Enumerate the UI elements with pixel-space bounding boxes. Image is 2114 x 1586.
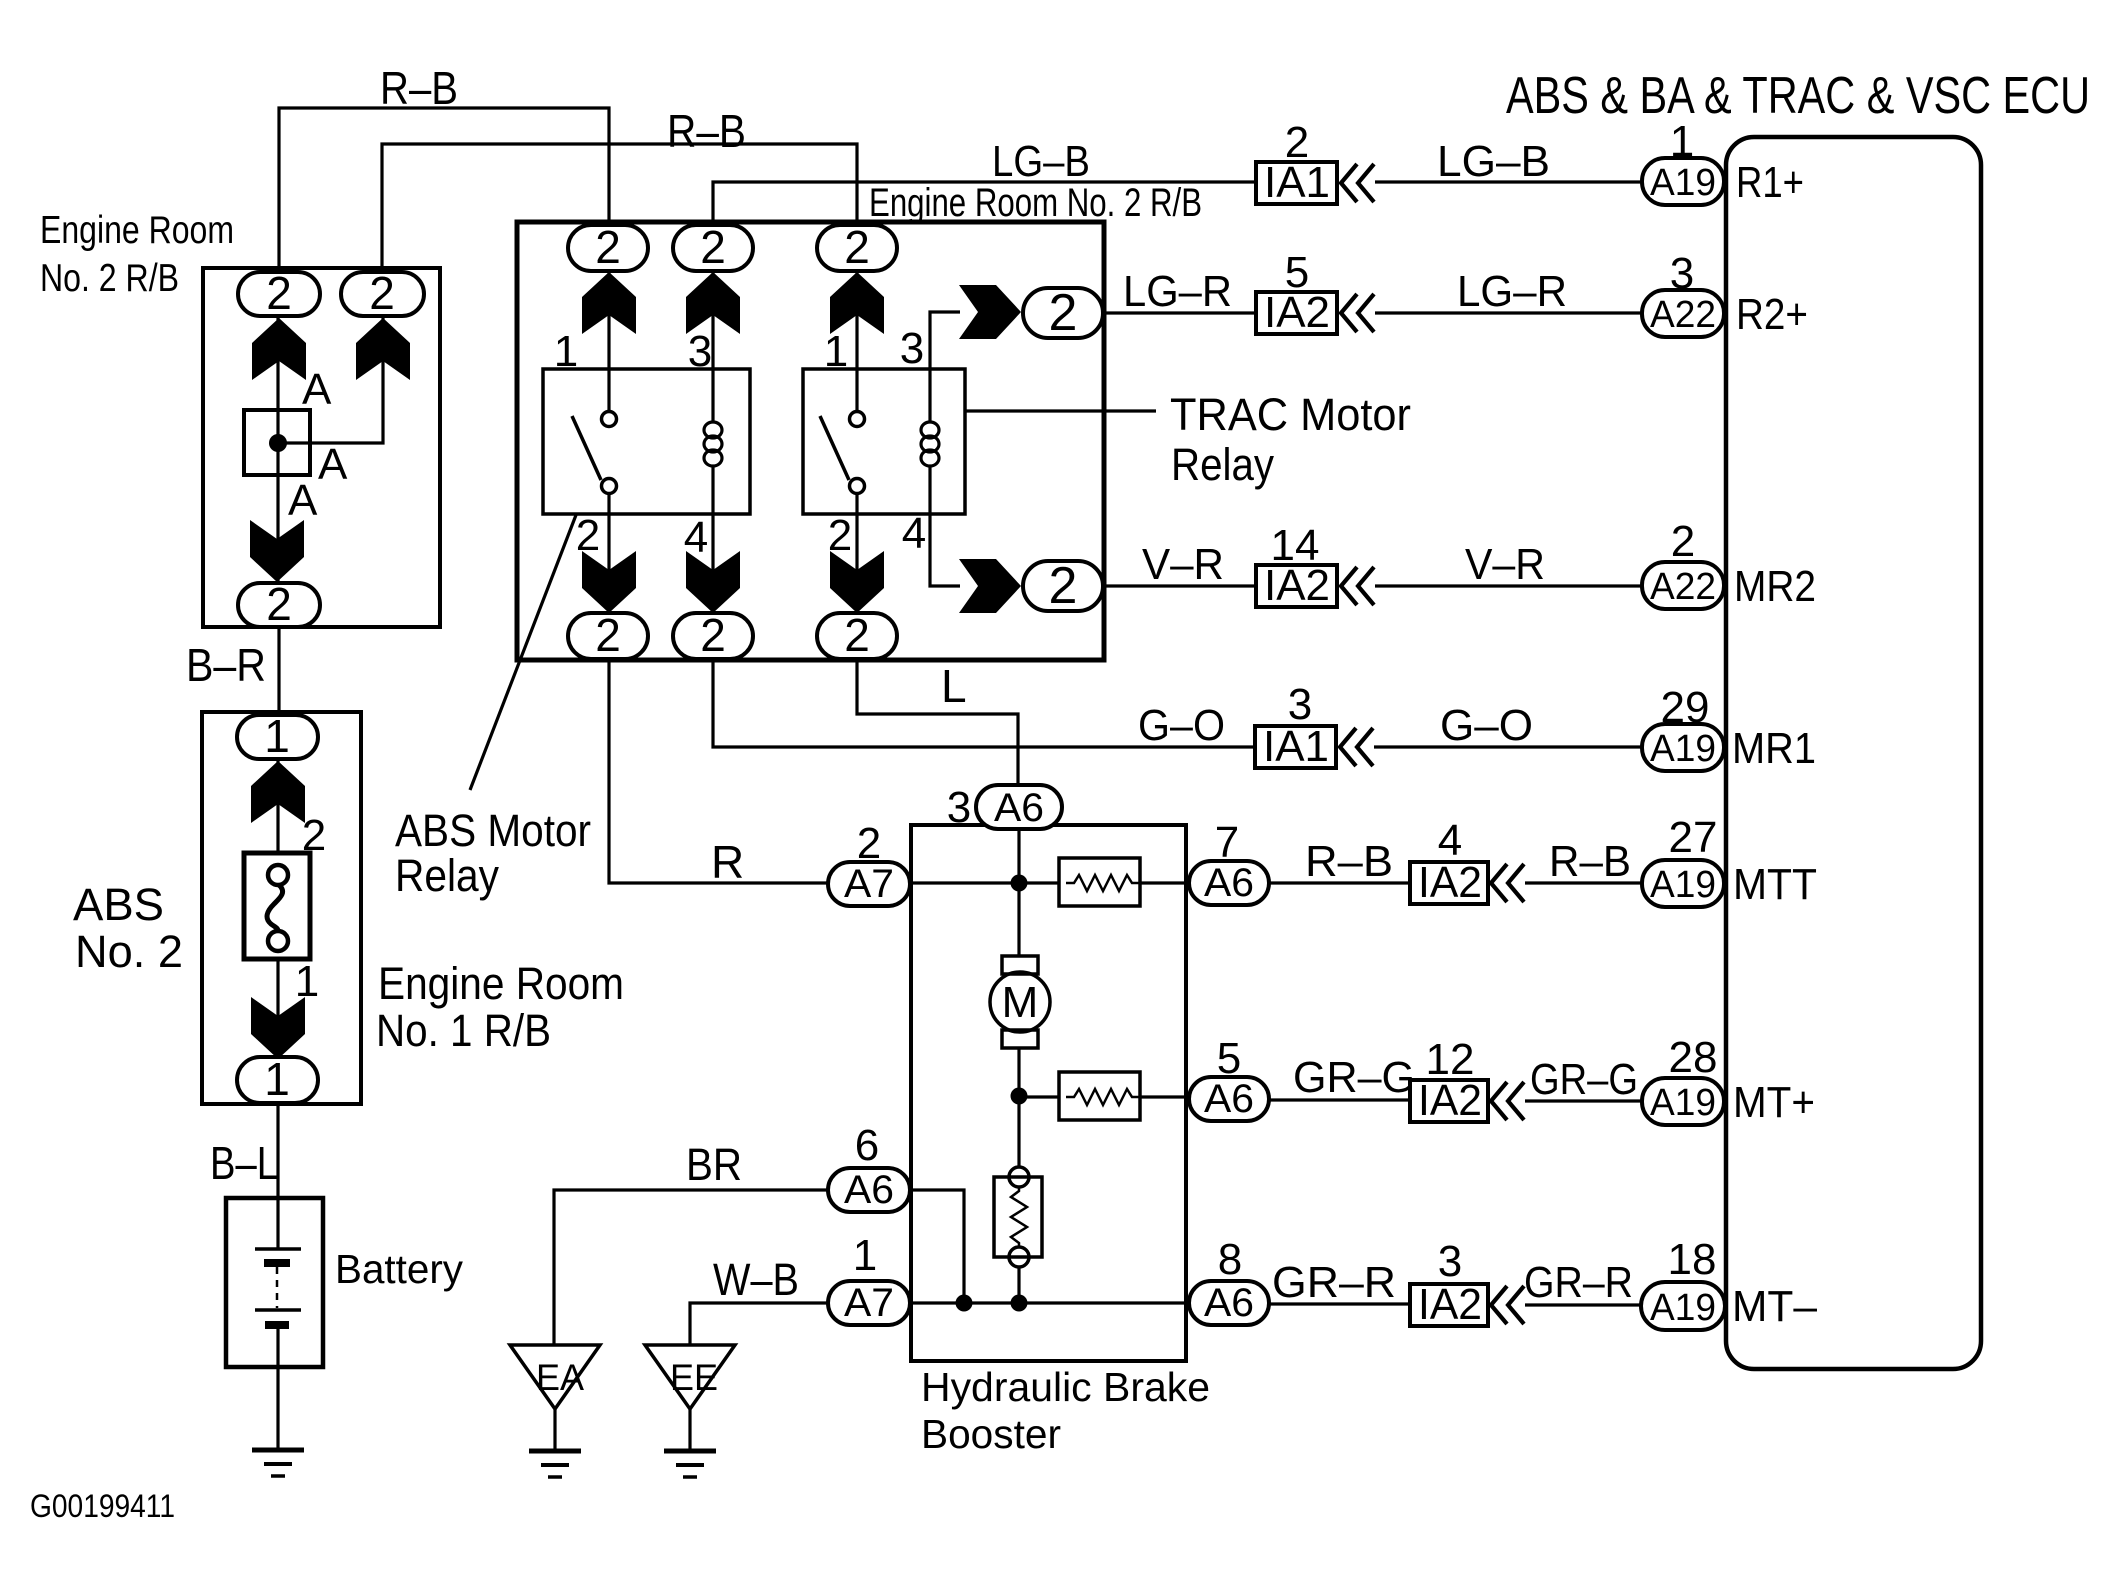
wire R-B battery feed to col1 top oval	[279, 108, 609, 268]
oval 2 col1 bottom	[568, 613, 648, 659]
svg-text:R–B: R–B	[667, 105, 746, 157]
switch contact relay1	[607, 369, 610, 412]
fuse arrow down col3	[830, 551, 884, 613]
svg-text:A6: A6	[844, 1168, 894, 1212]
wire relay2 coil pin3 up to LG-R arrow	[930, 312, 960, 369]
wire G-O from relay col2 bottom to IA1 (row MR1)	[713, 660, 1255, 747]
connector IA2 pin 5 (row R2+)	[1256, 292, 1337, 334]
svg-text:5: 5	[1285, 248, 1309, 297]
svg-text:2: 2	[1285, 118, 1309, 167]
wire R-B A6 pin7 to IA2 (row MTT)	[1269, 881, 1410, 884]
connector IA2 pin 3 (row MT-)	[1410, 1284, 1488, 1326]
svg-text:GR–R: GR–R	[1524, 1258, 1633, 1307]
svg-text:Booster: Booster	[921, 1411, 1061, 1457]
connector oval A22 pin 3 (R2+)	[1642, 290, 1724, 337]
svg-text:1: 1	[1670, 117, 1694, 166]
wire MTT row inside booster	[911, 881, 1189, 884]
svg-text:2: 2	[1049, 284, 1078, 342]
svg-text:2: 2	[266, 267, 292, 319]
junction block box Engine Room No. 2 R/B (left)	[203, 268, 440, 627]
svg-text:MT–: MT–	[1732, 1282, 1818, 1331]
wire oval1 to fuse ABS No.2	[276, 759, 279, 853]
svg-text:28: 28	[1669, 1033, 1718, 1082]
resistor MTT row	[1059, 858, 1140, 906]
arrow right V-R	[959, 559, 1021, 613]
svg-text:2: 2	[844, 221, 870, 273]
connector oval A19 pin 27 (MTT)	[1642, 860, 1724, 907]
ground battery	[252, 1450, 304, 1476]
svg-text:2: 2	[700, 609, 726, 661]
oval A6 pin 7	[1189, 861, 1269, 905]
fuse arrow up ABS No.2	[251, 761, 305, 823]
svg-text:14: 14	[1271, 521, 1320, 570]
wire R-B second branch to col3 top oval	[382, 144, 857, 268]
pointer line ABS Motor Relay	[470, 515, 576, 790]
junction dot node A	[269, 434, 287, 452]
svg-text:W–B: W–B	[713, 1254, 799, 1305]
connector IA1 pin 3 (row MR1)	[1255, 726, 1336, 768]
wire V-R oval to IA2 (row MR2)	[1103, 584, 1256, 587]
svg-text:2: 2	[844, 609, 870, 661]
svg-text:2: 2	[1049, 557, 1078, 615]
wire LG-B IA1 to ECU pin A19	[1375, 180, 1642, 183]
connector oval A19 pin 28 (MT+)	[1642, 1078, 1724, 1125]
svg-text:IA1: IA1	[1263, 722, 1329, 771]
svg-text:MR1: MR1	[1732, 724, 1816, 773]
oval 1 ABS No.2 bottom	[237, 1057, 318, 1103]
svg-text:Relay: Relay	[1171, 439, 1274, 490]
svg-text:ABS & BA & TRAC & VSC ECU: ABS & BA & TRAC & VSC ECU	[1506, 67, 2090, 125]
svg-text:A7: A7	[844, 862, 894, 906]
svg-text:MTT: MTT	[1733, 860, 1817, 909]
connector oval A19 pin 29 (MR1)	[1642, 724, 1724, 771]
svg-text:2: 2	[857, 819, 881, 868]
wire relay1 pin2 to col1 bottom oval	[607, 514, 610, 613]
connector IA1 pin 2 (row R1+)	[1256, 162, 1337, 204]
oval 2 col2 top	[673, 225, 753, 271]
oval A7 pin 2 (booster left top)	[828, 862, 910, 906]
svg-text:1: 1	[264, 1053, 290, 1105]
svg-text:8: 8	[1218, 1235, 1242, 1284]
wire motor to MT+ junction	[1017, 1048, 1020, 1168]
oval 2 left box bottom	[238, 583, 320, 627]
wire relay1 pin4 to col2 bottom oval	[711, 514, 714, 613]
wire GR-R IA2 to ECU pin A19 (MT-)	[1525, 1303, 1641, 1306]
svg-text:7: 7	[1215, 818, 1239, 867]
svg-text:V–R: V–R	[1142, 540, 1224, 589]
junction dot MTT	[1011, 875, 1028, 892]
junction dot MT+	[1011, 1088, 1028, 1105]
svg-text:R–B: R–B	[1549, 837, 1631, 886]
wire battery to ground	[276, 1329, 279, 1450]
coil relay1	[711, 369, 714, 423]
resistor vertical booster	[994, 1177, 1042, 1257]
relay block box Engine Room No. 2 R/B	[517, 222, 1104, 660]
wire W-B A7 pin1 to EE ground	[690, 1303, 828, 1345]
svg-text:Hydraulic Brake: Hydraulic Brake	[921, 1364, 1210, 1410]
oval A6 pin 5	[1189, 1077, 1269, 1121]
wire BR A6 pin6 to EA ground	[554, 1190, 828, 1345]
svg-text:A19: A19	[1650, 728, 1716, 770]
svg-text:A22: A22	[1650, 294, 1716, 336]
pointer line TRAC Motor Relay	[965, 409, 1156, 412]
svg-text:1: 1	[824, 327, 848, 376]
svg-text:MR2: MR2	[1734, 562, 1816, 611]
svg-text:EA: EA	[536, 1357, 584, 1398]
oval 2 left box top col1	[238, 272, 320, 316]
oval 2 col3 bottom	[817, 613, 897, 659]
svg-text:A6: A6	[1204, 861, 1254, 905]
oval 1 ABS No.2 top	[237, 715, 318, 759]
svg-text:2: 2	[369, 267, 395, 319]
battery box	[226, 1198, 323, 1367]
svg-text:G00199411: G00199411	[30, 1488, 175, 1524]
svg-text:V–R: V–R	[1465, 540, 1545, 589]
svg-text:No. 2 R/B: No. 2 R/B	[40, 257, 179, 300]
svg-text:IA2: IA2	[1418, 858, 1482, 907]
oval A6 pin 6	[828, 1168, 910, 1212]
svg-text:IA2: IA2	[1418, 1280, 1482, 1329]
junction dot A6 pin6 branch	[956, 1295, 973, 1312]
svg-text:Relay: Relay	[395, 850, 499, 901]
fuse arrow up left box col2	[356, 318, 410, 380]
fuse arrow down col1	[582, 551, 636, 613]
wire col3 top oval to relay2 pin1	[855, 271, 858, 369]
connector oval A22 pin 2 (MR2)	[1642, 562, 1724, 609]
fuse arrow down left box	[250, 520, 304, 582]
wire LG-B from relay box pin 3 col2 to IA1	[713, 182, 1256, 225]
connector IA2 pin 4 (row MTT)	[1410, 862, 1488, 904]
wire B-R left box to ABS No.2	[277, 627, 280, 712]
wire resistor to MT- row	[1017, 1267, 1020, 1303]
coil relay2	[928, 369, 931, 423]
switch contact relay2	[855, 369, 858, 412]
svg-text:LG–R: LG–R	[1457, 267, 1567, 316]
svg-text:LG–R: LG–R	[1123, 267, 1232, 316]
fuse element ABS No.2	[244, 853, 310, 959]
svg-text:A19: A19	[1650, 1082, 1716, 1124]
wire MT+ row inside booster	[1019, 1095, 1189, 1098]
svg-text:ABS Motor: ABS Motor	[395, 805, 591, 856]
svg-text:A: A	[288, 476, 318, 525]
svg-text:Battery: Battery	[335, 1246, 463, 1292]
fuse arrow up col1	[582, 272, 636, 334]
svg-text:29: 29	[1661, 683, 1710, 732]
svg-text:TRAC Motor: TRAC Motor	[1170, 389, 1411, 440]
svg-text:Engine Room: Engine Room	[378, 958, 624, 1009]
ECU box ABS & BA & TRAC & VSC ECU	[1726, 137, 1981, 1369]
wire V-R IA2 to ECU pin A22	[1375, 584, 1642, 587]
relay TRAC Motor Relay box	[803, 369, 965, 514]
oval 2 left box top col2	[341, 272, 424, 316]
svg-text:27: 27	[1669, 813, 1718, 862]
svg-text:LG–B: LG–B	[992, 137, 1090, 186]
svg-text:A6: A6	[1204, 1077, 1254, 1121]
wire oval1 to junction square	[276, 316, 279, 583]
svg-text:5: 5	[1217, 1034, 1241, 1083]
svg-text:M: M	[1002, 978, 1039, 1027]
svg-text:GR–G: GR–G	[1293, 1053, 1415, 1102]
svg-text:MT+: MT+	[1733, 1078, 1815, 1127]
svg-text:GR–G: GR–G	[1530, 1055, 1638, 1104]
svg-text:3: 3	[1438, 1237, 1462, 1286]
svg-text:1: 1	[295, 957, 319, 1006]
fuse arrow up col3	[830, 272, 884, 334]
svg-text:R–B: R–B	[1305, 837, 1393, 886]
wire MT- row inside booster	[911, 1301, 1189, 1304]
ground triangle EE	[645, 1345, 735, 1409]
oval A6 pin 3 (booster top)	[976, 785, 1062, 829]
fuse arrow up left box col1	[252, 318, 306, 380]
oval 2 LG-R output	[1023, 288, 1103, 338]
connector oval A19 pin 18 (MT-)	[1641, 1282, 1725, 1330]
svg-text:EE: EE	[670, 1357, 718, 1398]
wire relay2 pin2 to col3 bottom oval	[855, 514, 858, 613]
oval 2 col1 top	[568, 225, 648, 271]
wire L relay col3 to A6 pin3	[857, 660, 1018, 785]
resistor MT+ row	[1059, 1072, 1140, 1120]
fuse arrow down ABS No.2	[251, 997, 305, 1059]
svg-text:G–O: G–O	[1440, 701, 1533, 750]
fuse arrow up col2	[686, 272, 740, 334]
svg-text:2: 2	[700, 221, 726, 273]
wire B-L ABS No.2 to battery	[276, 1104, 279, 1249]
wire G-O IA1 to ECU pin A19	[1374, 745, 1642, 748]
svg-text:A: A	[302, 365, 332, 414]
svg-text:3: 3	[1288, 680, 1312, 729]
svg-text:12: 12	[1426, 1035, 1475, 1084]
svg-text:B–R: B–R	[186, 639, 266, 691]
svg-text:1: 1	[853, 1231, 877, 1280]
svg-text:No. 1 R/B: No. 1 R/B	[376, 1005, 551, 1056]
wire fuse to bottom oval	[276, 957, 279, 1057]
oval A6 pin 8	[1189, 1281, 1269, 1325]
svg-text:L: L	[941, 660, 967, 712]
svg-text:No. 2: No. 2	[75, 926, 183, 977]
fuse block box ABS No. 2	[202, 712, 361, 1104]
svg-text:LG–B: LG–B	[1437, 137, 1550, 186]
oval 2 col2 bottom	[673, 613, 753, 659]
svg-text:R: R	[711, 836, 744, 888]
junction square node A	[244, 410, 310, 475]
svg-text:3: 3	[1670, 249, 1694, 298]
fuse arrow down col2	[686, 551, 740, 613]
booster box Hydraulic Brake Booster	[911, 825, 1186, 1361]
svg-text:BR: BR	[686, 1139, 742, 1190]
svg-text:1: 1	[554, 327, 578, 376]
wire GR-G A6 pin5 to IA2 (row MT+)	[1269, 1098, 1410, 1101]
wire A6 pin6 to MT- row	[910, 1190, 964, 1303]
svg-text:A19: A19	[1650, 864, 1716, 906]
connector IA2 pin 12 (row MT+)	[1410, 1080, 1488, 1122]
svg-text:R2+: R2+	[1736, 290, 1808, 339]
svg-text:B–L: B–L	[210, 1137, 278, 1189]
svg-text:A22: A22	[1650, 566, 1716, 608]
svg-text:4: 4	[1438, 816, 1462, 865]
arrow right LG-R	[959, 285, 1021, 339]
svg-text:A6: A6	[994, 786, 1044, 830]
svg-text:3: 3	[947, 783, 971, 832]
svg-text:A6: A6	[1204, 1281, 1254, 1325]
relay ABS Motor Relay box	[543, 369, 750, 514]
svg-text:Engine Room No. 2 R/B: Engine Room No. 2 R/B	[869, 181, 1202, 225]
ground triangle EA	[510, 1345, 600, 1409]
svg-text:ABS: ABS	[73, 879, 164, 930]
oval A7 pin 1	[828, 1281, 910, 1325]
wire R relay col1 to A7 pin2	[609, 660, 828, 883]
svg-text:6: 6	[855, 1121, 879, 1170]
svg-text:A19: A19	[1650, 162, 1716, 204]
battery plates	[255, 1247, 301, 1251]
svg-text:A19: A19	[1650, 1287, 1716, 1329]
wire relay2 coil pin4 down to V-R arrow	[930, 514, 960, 586]
wire GR-G IA2 to ECU pin A19 (MT+)	[1525, 1099, 1642, 1102]
svg-text:Engine Room: Engine Room	[40, 209, 234, 252]
wire booster feed vertical	[1017, 829, 1020, 956]
wire col2 top oval to relay1 pin3	[711, 271, 714, 369]
svg-text:2: 2	[576, 511, 600, 560]
connector IA2 pin 14 (row MR2)	[1256, 565, 1337, 607]
wire col1 top oval to relay1 pin1	[607, 271, 610, 369]
svg-text:2: 2	[1671, 517, 1695, 566]
junction dot MT-	[1011, 1295, 1028, 1312]
connector oval A19 pin 1 (R1+)	[1642, 158, 1724, 205]
svg-text:2: 2	[266, 578, 292, 630]
svg-text:3: 3	[900, 324, 924, 373]
motor M booster pump	[1002, 956, 1038, 974]
wire GR-R A6 pin8 to IA2 (row MT-)	[1269, 1302, 1410, 1305]
svg-text:A7: A7	[844, 1281, 894, 1325]
wire R-B IA2 to ECU pin A19 (MTT)	[1525, 881, 1642, 884]
wire LG-R IA2 to ECU pin A22	[1375, 311, 1642, 314]
svg-text:GR–R: GR–R	[1272, 1258, 1396, 1307]
svg-text:3: 3	[688, 327, 712, 376]
svg-text:4: 4	[902, 509, 926, 558]
svg-text:1: 1	[264, 710, 290, 762]
svg-text:R–B: R–B	[380, 62, 458, 114]
oval 2 col3 top	[817, 225, 897, 271]
oval 2 V-R output	[1023, 561, 1103, 611]
svg-text:A: A	[318, 440, 348, 489]
svg-text:18: 18	[1668, 1235, 1717, 1284]
wire oval2 branch to junction dot	[278, 316, 383, 443]
svg-text:G–O: G–O	[1138, 701, 1225, 750]
svg-text:2: 2	[595, 221, 621, 273]
svg-text:2: 2	[595, 609, 621, 661]
svg-text:R1+: R1+	[1736, 158, 1804, 207]
wire LG-R oval to IA2 (row R2+)	[1103, 311, 1256, 314]
